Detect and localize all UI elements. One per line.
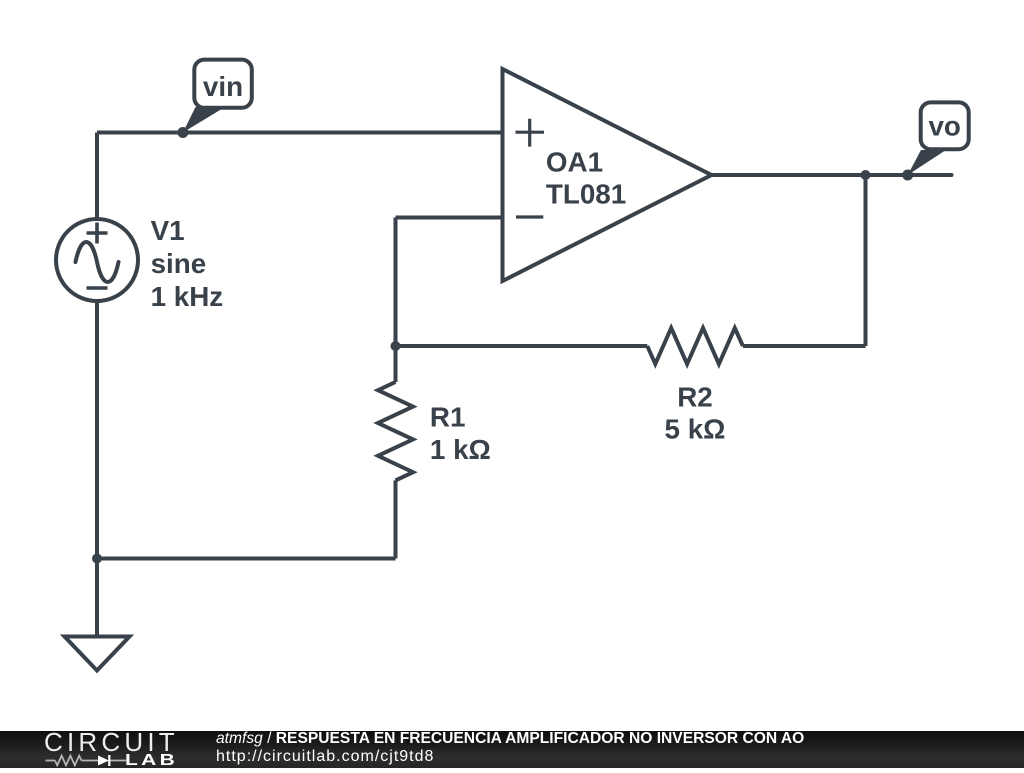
junction dot feedback node — [391, 341, 401, 351]
V1 plus sign — [87, 223, 108, 244]
junction dot bottom node — [92, 554, 102, 564]
CircuitLab logo wordmark CIRCUIT — [44, 729, 179, 755]
wire output — [711, 173, 952, 177]
svg-text:V1: V1 — [151, 215, 185, 246]
wire R1 top lead — [394, 346, 398, 382]
svg-text:OA1: OA1 — [546, 147, 603, 178]
svg-text:1 kΩ: 1 kΩ — [430, 434, 491, 465]
wire inverting input down to feedback node — [394, 218, 398, 347]
svg-text:1 kHz: 1 kHz — [151, 281, 224, 312]
junction dot output node — [861, 170, 871, 180]
voltage source V1 circle — [56, 219, 138, 301]
wire vin top: source to op-amp + input — [97, 131, 502, 135]
ground triangle — [65, 637, 130, 671]
wire feedback node to R2 — [396, 344, 648, 348]
wire feedback vertical up to output — [864, 175, 868, 346]
wire V1 top lead — [95, 133, 99, 220]
op-amp U1 triangle — [503, 69, 712, 281]
footer bar — [0, 731, 1024, 768]
wire V1 bottom lead — [95, 301, 99, 559]
op-amp plus input symbol — [516, 119, 545, 147]
svg-text:R1: R1 — [430, 402, 466, 433]
junction dot vo — [902, 170, 913, 181]
footer url line — [216, 749, 434, 765]
op-amp minus input symbol — [516, 215, 543, 218]
wire R2 to output branch — [743, 344, 866, 348]
wire R1 bottom lead — [394, 480, 398, 558]
ground stem — [95, 559, 99, 637]
vin label tail — [183, 107, 225, 133]
wire bottom horizontal — [97, 557, 396, 561]
net label box vin — [194, 60, 252, 108]
svg-text:R2: R2 — [677, 382, 713, 413]
svg-text:TL081: TL081 — [546, 179, 626, 210]
V1 sine wave — [76, 242, 119, 282]
footer title line — [216, 731, 804, 747]
junction dot vin — [177, 127, 188, 138]
CircuitLab logo LAB — [125, 753, 178, 769]
net label box vo — [921, 102, 969, 149]
CircuitLab logo resistor-diode symbol — [44, 753, 128, 767]
svg-text:5 kΩ: 5 kΩ — [665, 414, 726, 445]
svg-text:vo: vo — [928, 111, 960, 142]
resistor R2 zigzag — [647, 328, 743, 364]
svg-text:vin: vin — [203, 71, 243, 102]
svg-text:sine: sine — [151, 248, 207, 279]
wire op-amp inverting input — [396, 216, 503, 220]
resistor R1 zigzag — [378, 382, 413, 480]
vo label tail — [908, 150, 946, 175]
V1 minus sign — [87, 286, 108, 290]
